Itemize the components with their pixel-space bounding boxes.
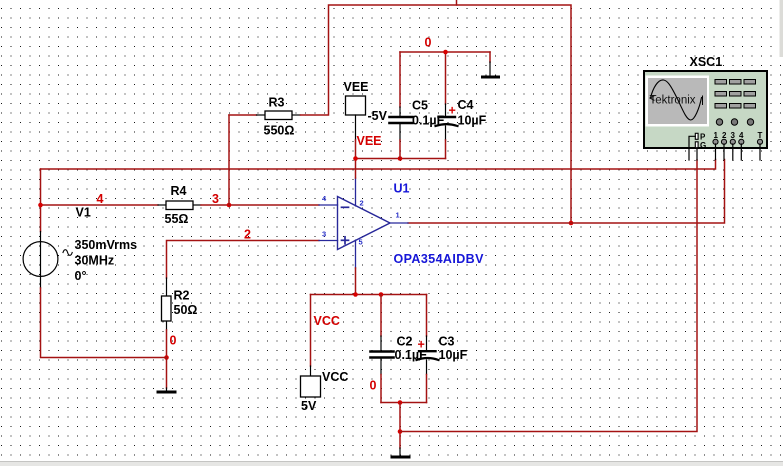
right window edge [780, 0, 783, 57]
svg-text:VEE: VEE [357, 134, 382, 148]
capacitor C5 [390, 52, 445, 159]
svg-text:R2: R2 [174, 289, 190, 303]
scope terminal stubs [697, 144, 760, 160]
svg-text:50Ω: 50Ω [174, 303, 198, 317]
svg-text:30MHz: 30MHz [75, 254, 115, 268]
wire R3 left segment [229, 114, 257, 116]
power source VEE [344, 80, 388, 140]
junction dot cap loop bottom [398, 400, 403, 405]
wire stub going off top edge [456, 0, 458, 5]
svg-text:3: 3 [731, 131, 736, 140]
wire node 2 horizontal to op-amp non-inverting input [167, 241, 320, 279]
svg-text:VCC: VCC [314, 314, 340, 328]
svg-text:4: 4 [739, 131, 744, 140]
svg-text:3: 3 [322, 230, 326, 239]
wire CH1 horizontal from left rail to scope channel 1 [41, 160, 716, 170]
svg-text:4: 4 [97, 192, 104, 206]
wire node 3 horizontal from R4 to op-amp inverting input [201, 204, 319, 206]
svg-text:0: 0 [425, 36, 432, 50]
feedback junction dot on output wire [569, 221, 574, 226]
svg-text:XSC1: XSC1 [690, 55, 723, 69]
AC source V1 [23, 206, 137, 289]
wire ground return to scope G terminal [400, 160, 697, 432]
wire node 4 horizontal from rail to R4 [41, 204, 159, 206]
svg-text:V1: V1 [76, 206, 91, 220]
svg-text:3: 3 [212, 192, 219, 206]
svg-text:0°: 0° [75, 269, 87, 283]
svg-text:-5V: -5V [368, 109, 388, 123]
wire R3 branch vertical node3 up to R3 row [228, 115, 230, 205]
svg-text:T: T [758, 131, 763, 140]
capacitor C4 polarized [436, 52, 487, 159]
wire output node 1 to scope channel 2 [408, 160, 725, 224]
resistor R4 [158, 184, 201, 226]
svg-text:+: + [449, 104, 456, 118]
svg-text:0: 0 [370, 379, 377, 393]
svg-text:U1: U1 [394, 182, 410, 196]
VEE junction dots [353, 156, 358, 161]
svg-text:550Ω: 550Ω [264, 124, 295, 138]
svg-text:0: 0 [170, 334, 177, 348]
svg-text:VCC: VCC [322, 370, 348, 384]
ground bottom center [391, 448, 411, 459]
oscilloscope XSC1 [644, 55, 767, 150]
wire node 0 top horizontal [400, 51, 490, 53]
node 4 junction dot [38, 203, 43, 208]
op-amp U1 [319, 182, 484, 267]
capacitor C2 [371, 295, 428, 403]
svg-text:C4: C4 [458, 98, 474, 112]
svg-text:C2: C2 [397, 335, 413, 349]
ground below R2 [157, 358, 177, 394]
svg-text:OPA354AIDBV: OPA354AIDBV [394, 252, 485, 266]
svg-text:350mVrms: 350mVrms [75, 238, 138, 252]
wire left rail vertical from CH1 down to V1 [40, 169, 42, 232]
svg-text:55Ω: 55Ω [165, 212, 189, 226]
wire loop bottom to ground [399, 403, 401, 449]
svg-text:R3: R3 [269, 96, 285, 110]
svg-text:10µF: 10µF [458, 114, 487, 128]
junction dot ground return [398, 429, 403, 434]
wire VCC net horizontal [311, 294, 427, 296]
VCC junction dots [353, 292, 358, 297]
wire op-amp pin5 supply lead [355, 240, 357, 268]
junction dot V1/R2/ground [164, 355, 169, 360]
power source VCC [301, 295, 349, 414]
svg-text:1: 1 [714, 131, 719, 140]
bottom window edge [0, 462, 783, 466]
wire R3 right to top feedback loop [301, 5, 572, 223]
svg-text:5: 5 [359, 238, 363, 247]
svg-text:2: 2 [360, 199, 364, 208]
wire V1 bottom to ground junction [41, 288, 167, 358]
svg-text:+: + [418, 338, 425, 352]
svg-text:10µF: 10µF [439, 348, 468, 362]
node 3 junction dot [227, 203, 232, 208]
wire R2 bottom to ground junction [166, 330, 168, 358]
wire cap loop bottom [381, 402, 427, 404]
resistor R3 [257, 96, 301, 138]
node 0 junction dot top [443, 50, 448, 55]
svg-text:2: 2 [722, 131, 727, 140]
svg-text:R4: R4 [171, 184, 187, 198]
svg-text:5V: 5V [301, 399, 317, 413]
scope P stub wire [689, 136, 695, 160]
wire VEE lead to VEE net [355, 140, 357, 159]
svg-text:Tektronix: Tektronix [650, 95, 696, 107]
svg-text:G: G [700, 141, 706, 150]
svg-text:VEE: VEE [344, 80, 369, 94]
capacitor C3 polarized [417, 295, 468, 403]
svg-text:1: 1 [396, 211, 400, 220]
resistor R2 [162, 278, 198, 330]
wire op-amp pin2 supply lead [355, 178, 357, 206]
svg-text:C3: C3 [439, 335, 455, 349]
svg-text:2: 2 [244, 228, 251, 242]
svg-text:C5: C5 [412, 99, 428, 113]
ground top right [481, 52, 500, 79]
wire VEE net horizontal [356, 158, 446, 160]
